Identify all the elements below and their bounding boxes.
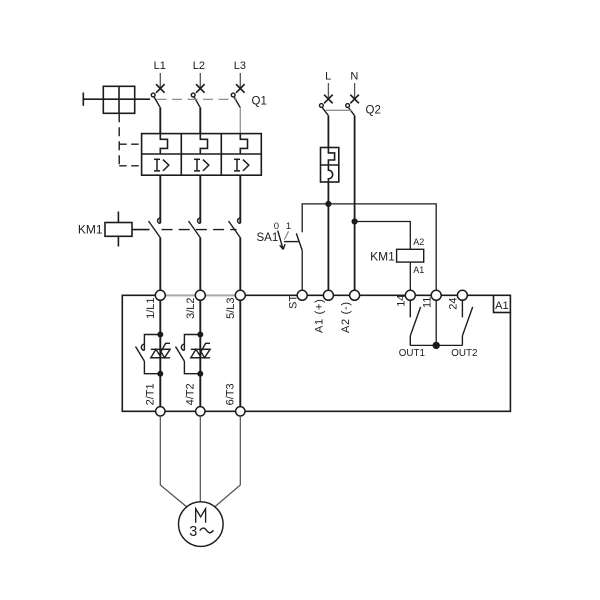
svg-text:3/L2: 3/L2 [185,297,197,318]
svg-text:L2: L2 [193,60,205,72]
wire 6/T3 to motor [214,416,240,508]
terminal 1/L1 [155,290,165,300]
mechanism dashed stub upper [119,143,141,145]
wire KM1 pole3 to terminal 5/L3 [239,238,241,296]
svg-text:A1: A1 [413,265,424,275]
wire terminal 11 to common [435,300,437,345]
control bus lower (to coil) [355,222,411,250]
bypass contact phase 2 [176,335,201,374]
wire Q1 pole3 to trip box (gray) [239,108,241,134]
thermal element pole 3 [240,134,247,154]
bypass contact phase 1 [136,335,161,374]
svg-text:11: 11 [421,297,433,308]
Q1 operating mechanism box [83,86,150,113]
svg-text:1/L1: 1/L1 [145,297,157,318]
terminal 3/L2 [195,290,205,300]
svg-text:L3: L3 [234,60,246,72]
magnetic element I> pole 2 [194,159,209,171]
terminal 6/T3 [236,407,245,416]
wire N lead [354,83,356,100]
wire Q1 pole1 to trip box [159,108,161,134]
terminal X L1 [156,84,165,93]
mechanical link KM1 (dashed) [162,229,237,231]
phase 2 internal conductor [199,295,201,411]
terminal 11 [431,290,441,300]
node N junction [352,219,357,224]
wire Q2 box to terminal A1(+) [327,182,329,295]
wire Q1 pole2 to trip box [199,108,201,134]
phase 3 internal conductor [239,295,241,411]
terminal X L2 [196,84,205,93]
soft starter corner box A1 [494,295,511,312]
svg-text:Q2: Q2 [366,105,381,117]
contactor KM1 contact pole 2 [189,218,201,238]
wire N to terminal A2(-) [354,116,356,296]
Q2 trip unit box [321,148,339,183]
node phase2 bottom [198,372,202,376]
terminal X L [324,95,333,104]
soft starter outline [122,295,510,411]
wire KM1 pole2 to terminal 3/L2 [199,238,201,296]
terminal A1 plus [323,290,333,300]
svg-text:4/T2: 4/T2 [184,383,196,405]
svg-text:2/T1: 2/T1 [144,383,156,405]
svg-text:KM1: KM1 [370,249,395,263]
selector switch SA1 [278,231,303,251]
thyristor pair phase 2 [191,343,210,358]
Q1 trip unit box [142,134,262,176]
wire 2/T1 to motor [160,416,187,508]
wire KM1 pole1 to terminal 1/L1 [159,238,161,296]
mechanism dashed stub lower [119,165,141,167]
terminal 4/T2 [196,407,205,416]
svg-text:A1: A1 [495,300,508,312]
svg-text:5/L3: 5/L3 [225,297,237,318]
thermal element pole 1 [160,134,167,154]
svg-text:24: 24 [448,297,460,309]
wire gray bus segment 2 [204,294,237,296]
node phase1 bottom [158,372,162,376]
svg-text:A2 (-): A2 (-) [340,301,352,333]
wire trip box to KM1 contact pole3 [239,175,241,223]
svg-text:OUT2: OUT2 [451,348,477,359]
wire SA1 to terminal ST [301,251,303,296]
svg-text:SA1: SA1 [257,232,279,244]
wire L1 lead [159,73,161,90]
breaker Q2 pole N contact [346,104,355,116]
breaker Q1 pole 1 contact [151,93,160,108]
node phase1 top [158,332,162,336]
wire trip box to KM1 contact pole2 [199,175,201,223]
svg-text:N: N [350,71,358,83]
wire 4/T2 to motor [199,416,201,502]
contactor KM1 coil (control) [397,249,424,295]
magnetic element I> pole 1 [154,159,169,171]
node phase2 top [198,332,202,336]
breaker Q1 pole 3 contact [231,93,240,108]
svg-text:14: 14 [395,295,407,307]
relay contact OUT1 [410,300,420,345]
svg-text:3: 3 [189,524,197,540]
wire OUT common bar [410,344,462,346]
phase 1 internal conductor [159,295,161,411]
terminal A2 minus [350,290,360,300]
contactor KM1 contact pole 3 [229,218,241,238]
magnetic release Q2 [328,165,332,182]
relay contact OUT2 [462,300,472,345]
terminal 5/L3 [235,290,245,300]
breaker Q2 pole L contact [320,104,329,116]
wire L3 lead [239,73,241,90]
svg-text:L1: L1 [154,60,166,72]
contactor KM1 coil (left) [105,212,150,247]
mechanical link Q2 poles [326,109,352,111]
wire L lead [327,83,329,100]
wire Q2 L to trip box [327,116,329,148]
mechanical link Q1 poles (dashed) [157,98,238,100]
terminal X L3 [236,84,245,93]
terminal 24 [457,290,467,300]
svg-text:ST: ST [287,295,299,309]
mechanism dashed vertical link [118,113,120,166]
terminal ST [297,290,307,300]
svg-text:A2: A2 [413,237,424,247]
control bus upper [302,204,436,295]
magnetic element I> pole 3 [234,159,249,171]
thyristor pair phase 1 [151,343,170,358]
wire trip box to KM1 contact pole1 [159,175,161,223]
node OUT common [433,343,439,349]
thermal element pole 2 [200,134,207,154]
breaker Q1 pole 2 contact [191,93,200,108]
terminal X N [350,95,359,104]
svg-text:A1 (+): A1 (+) [314,299,326,333]
wire L2 lead [199,73,201,90]
motor M 3~ [179,502,224,547]
svg-text:OUT1: OUT1 [399,348,425,359]
svg-text:6/T3: 6/T3 [224,383,236,405]
svg-text:1: 1 [286,221,291,232]
node L junction [326,202,331,207]
svg-text:Q1: Q1 [252,96,267,108]
svg-text:L: L [325,71,331,83]
thermal element Q2 [328,148,334,166]
contactor KM1 contact pole 1 [149,218,161,238]
terminal 2/T1 [156,407,165,416]
svg-text:KM1: KM1 [78,222,103,236]
wire gray bus segment 1 [164,294,197,296]
svg-text:0: 0 [274,221,279,232]
terminal 14 [405,290,415,300]
